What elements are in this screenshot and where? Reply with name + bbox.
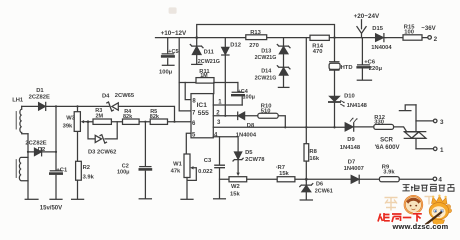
svg-text:+20~24V: +20~24V xyxy=(354,13,380,20)
svg-text:1N4007: 1N4007 xyxy=(344,166,364,172)
svg-text:D8: D8 xyxy=(247,123,255,129)
diode D11 zener xyxy=(190,38,203,64)
resistor R13 xyxy=(246,35,267,40)
capacitor C5 xyxy=(162,38,173,65)
ground C3 xyxy=(214,198,226,200)
diode D3 zener xyxy=(100,135,106,143)
wire R9 to terminal 4 xyxy=(399,178,433,180)
diode D1 xyxy=(45,102,47,110)
svg-text:1N4004: 1N4004 xyxy=(236,133,257,139)
ground C2 xyxy=(139,198,151,200)
svg-text:LH1: LH1 xyxy=(12,97,24,103)
ground C1 xyxy=(50,198,62,200)
svg-text:HTD: HTD xyxy=(341,65,353,71)
svg-text:D10: D10 xyxy=(344,93,355,99)
resistor R4 xyxy=(123,119,140,124)
svg-text:SCR: SCR xyxy=(380,136,393,143)
svg-text:1M: 1M xyxy=(200,73,208,79)
resistor R11 xyxy=(196,78,214,84)
svg-text:100: 100 xyxy=(404,30,414,36)
ground SCR tab xyxy=(399,105,416,111)
resistor R5 xyxy=(150,119,167,124)
wire left column vertical xyxy=(27,134,29,199)
transistor Q1 SCR triac xyxy=(404,105,425,149)
svg-text:470: 470 xyxy=(313,49,323,55)
resistor R14 xyxy=(310,35,329,40)
svg-text:47k: 47k xyxy=(171,168,181,174)
svg-text:0.022: 0.022 xyxy=(198,169,213,175)
node 至接触器触点 (to contactor contacts) pseudo-glyphs xyxy=(402,184,454,191)
svg-text:4: 4 xyxy=(214,133,218,139)
inductor LH1 xyxy=(20,106,28,133)
diode D9 LED xyxy=(354,123,374,131)
svg-text:2CW78: 2CW78 xyxy=(245,157,265,163)
diode D6 zener xyxy=(300,179,313,199)
wire H1 top left row xyxy=(22,106,175,121)
wire C1 column xyxy=(55,106,57,198)
ground D6 xyxy=(300,199,312,201)
svg-text:1: 1 xyxy=(440,147,444,154)
resistor R3 xyxy=(93,119,111,124)
svg-text:2CW61: 2CW61 xyxy=(315,188,333,194)
wire pin5 xyxy=(186,133,191,154)
labels middle section xyxy=(159,30,333,197)
resistor R8 xyxy=(304,144,309,161)
svg-text:2M: 2M xyxy=(96,113,104,119)
svg-text:IC1: IC1 xyxy=(197,102,208,109)
svg-text:D9: D9 xyxy=(347,137,355,143)
resistor R7 xyxy=(277,177,295,182)
wire pin4 row xyxy=(213,137,238,152)
svg-text:R13: R13 xyxy=(250,30,261,36)
terminal 2 xyxy=(428,36,432,40)
svg-text:270: 270 xyxy=(249,43,259,49)
wire R2 to ground xyxy=(77,180,79,199)
wire terminal 3 xyxy=(416,120,433,122)
svg-text:82k: 82k xyxy=(123,114,133,120)
diode D7 xyxy=(358,175,360,183)
svg-text:3.9k: 3.9k xyxy=(83,175,95,181)
svg-text:D6: D6 xyxy=(316,181,323,187)
svg-text:D3 2CW62: D3 2CW62 xyxy=(88,150,116,156)
terminal 3 xyxy=(433,119,437,123)
diode D4 zener xyxy=(107,102,114,111)
ground C6 xyxy=(357,79,371,81)
wire terminal 1 xyxy=(416,148,433,150)
svg-text:~36V: ~36V xyxy=(421,25,436,32)
svg-text:2: 2 xyxy=(434,36,438,43)
svg-text:R2: R2 xyxy=(83,165,90,171)
svg-text:W2: W2 xyxy=(231,184,240,190)
resistor R15 xyxy=(403,35,422,40)
svg-text:555: 555 xyxy=(198,110,209,117)
wire R11 row xyxy=(179,82,238,84)
watermark mascot xyxy=(422,195,452,228)
ground W1 xyxy=(181,198,193,200)
svg-text:3.9k: 3.9k xyxy=(383,169,395,175)
svg-text:C3: C3 xyxy=(204,158,212,164)
core LH2 xyxy=(15,160,17,178)
svg-text:1N4148: 1N4148 xyxy=(347,103,368,109)
diode D12 xyxy=(222,38,229,116)
svg-text:D4: D4 xyxy=(102,93,110,99)
resistor R10 xyxy=(258,113,278,118)
terminal 1 xyxy=(433,147,437,151)
wire C3 column xyxy=(219,137,221,198)
wire R8 to node xyxy=(305,161,307,179)
wire D7 to R9 xyxy=(359,178,379,180)
svg-text:D2: D2 xyxy=(38,147,45,153)
svg-text:3: 3 xyxy=(440,119,444,126)
wire C2 column xyxy=(144,122,146,199)
svg-text:+10~12V: +10~12V xyxy=(161,30,187,37)
wire R8 column upper xyxy=(305,38,307,144)
diode D10 LED xyxy=(334,103,336,128)
svg-text:510: 510 xyxy=(261,109,271,115)
wire pin6 row xyxy=(87,121,191,123)
ground LH2 xyxy=(25,198,38,200)
svg-text:D12: D12 xyxy=(230,43,241,49)
diode D13 zener xyxy=(277,38,290,68)
watermark faint blob top xyxy=(169,7,177,13)
diode D15 xyxy=(375,34,386,42)
inductor LH2 xyxy=(19,157,28,180)
node +10~12V label xyxy=(0,0,1,1)
svg-text:2CW21G: 2CW21G xyxy=(255,76,277,82)
capacitor C3 xyxy=(215,165,224,168)
wire pin2 row xyxy=(213,116,285,128)
svg-text:2CW21G: 2CW21G xyxy=(198,59,220,65)
svg-text:2CZ82E: 2CZ82E xyxy=(25,141,46,147)
svg-text:100μ: 100μ xyxy=(117,169,130,175)
svg-text:R8: R8 xyxy=(309,149,317,155)
potentiometer W1 xyxy=(184,154,190,178)
resistor R9 xyxy=(379,177,399,182)
watermark 维库一下 red pseudo-glyphs xyxy=(378,213,422,222)
capacitor C6 xyxy=(358,38,370,80)
diode D2 xyxy=(41,148,43,156)
svg-text:2CW21G: 2CW21G xyxy=(255,55,277,61)
svg-text:39k: 39k xyxy=(63,124,73,130)
op-amp U1 IC1 555 texts and pins xyxy=(192,98,222,138)
labels right section xyxy=(340,13,444,184)
resistor R12 xyxy=(374,124,394,129)
wire pin3 row xyxy=(213,126,345,128)
svg-text:D14: D14 xyxy=(261,69,272,75)
wire pin7 drop xyxy=(179,38,191,111)
wire +10~12V rail B xyxy=(156,37,428,39)
svg-text:4: 4 xyxy=(438,177,442,184)
buzzer HTD xyxy=(330,38,339,97)
ground R2 xyxy=(72,198,84,200)
svg-text:+C6: +C6 xyxy=(364,59,376,65)
wire pin8 drop xyxy=(185,83,191,100)
svg-text:82k: 82k xyxy=(150,114,160,120)
svg-text:100μ: 100μ xyxy=(243,95,256,101)
wire D2 row xyxy=(28,151,56,153)
svg-text:2CZ82E: 2CZ82E xyxy=(29,94,50,100)
svg-text:D1: D1 xyxy=(36,88,44,94)
wire R12 to gate xyxy=(394,127,407,132)
svg-text:330: 330 xyxy=(374,120,384,126)
svg-text:'6A 600V: '6A 600V xyxy=(375,144,401,151)
ground C5 xyxy=(162,64,174,66)
svg-text:2CW65: 2CW65 xyxy=(115,93,135,99)
potentiometer W3 xyxy=(77,106,79,161)
diode D8 xyxy=(237,112,239,119)
op-amp U1 IC1 555 box xyxy=(191,94,213,138)
svg-text:·R7: ·R7 xyxy=(276,165,285,171)
svg-text:15k: 15k xyxy=(279,171,289,177)
svg-text:D15: D15 xyxy=(372,26,383,32)
svg-text:15ν/50V: 15ν/50V xyxy=(40,206,62,212)
watermark badge circle logo xyxy=(405,196,422,213)
wire IC pin4 top stub xyxy=(213,83,215,94)
svg-text:D7: D7 xyxy=(348,160,355,166)
diode D5 zener xyxy=(233,158,243,173)
svg-text:D13: D13 xyxy=(261,48,271,54)
svg-text:3: 3 xyxy=(217,120,221,126)
core LH1 xyxy=(15,112,17,130)
capacitor C2 xyxy=(140,166,151,168)
terminal 4 xyxy=(433,177,437,181)
watermark ghost characters xyxy=(385,197,434,211)
svg-text:www.dzsc.com: www.dzsc.com xyxy=(392,222,449,230)
svg-text:220μ: 220μ xyxy=(369,66,383,72)
diode D14 zener xyxy=(277,66,290,87)
svg-text:100μ: 100μ xyxy=(159,69,173,75)
wire A top bypass xyxy=(197,25,335,38)
capacitor C1 xyxy=(50,170,61,172)
wire D3 loop xyxy=(88,122,117,139)
svg-text:15k: 15k xyxy=(230,191,240,197)
svg-text:16k: 16k xyxy=(309,156,319,162)
svg-text:D11: D11 xyxy=(204,49,215,55)
power +20~24V arrow xyxy=(357,20,366,38)
svg-text:D5: D5 xyxy=(245,150,253,156)
ground D11 xyxy=(192,63,202,65)
ground D13 D14 chain xyxy=(278,86,289,88)
potentiometer W2 xyxy=(229,177,247,182)
capacitor C4 xyxy=(232,83,244,106)
svg-text:1N4004: 1N4004 xyxy=(371,45,392,51)
labels left section xyxy=(12,88,160,212)
svg-text:1N4148: 1N4148 xyxy=(340,145,361,151)
resistor R2 xyxy=(76,161,82,180)
wire pin1 row xyxy=(213,104,242,106)
svg-text:+C1: +C1 xyxy=(56,168,68,174)
svg-text:W1: W1 xyxy=(173,162,182,168)
svg-text:+C5: +C5 xyxy=(168,49,178,55)
svg-text:W3: W3 xyxy=(66,115,75,121)
wire W2 row xyxy=(220,178,352,180)
